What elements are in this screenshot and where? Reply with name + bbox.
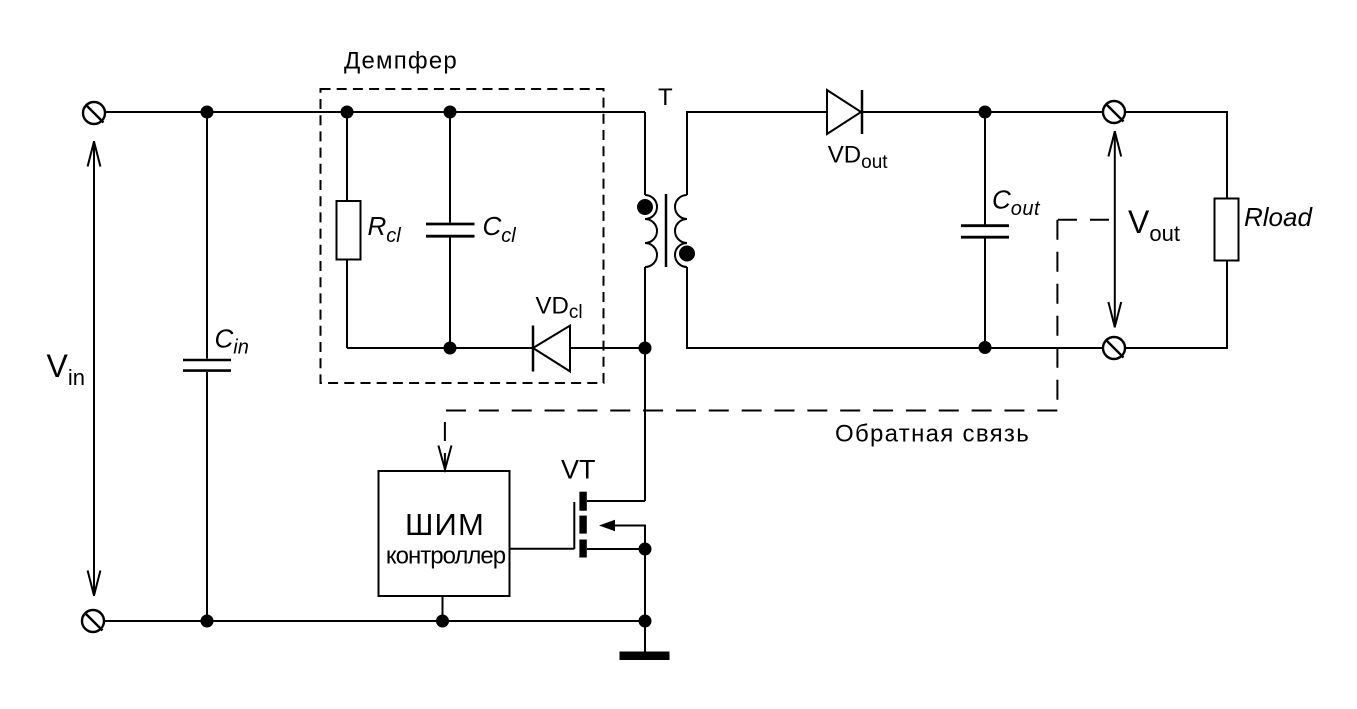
PWM controller box U1	[379, 471, 510, 596]
wire output top right	[1125, 112, 1227, 199]
capacitor Cout	[961, 226, 1009, 238]
transistor VT body arrow	[599, 520, 645, 549]
Vin arrow	[88, 141, 101, 596]
wire Ccl top	[449, 112, 451, 223]
transformer secondary polarity dot	[679, 246, 695, 262]
svg-text:ШИМ: ШИМ	[405, 507, 485, 542]
feedback arrow into PWM box	[438, 446, 451, 470]
wire Ccl bottom	[449, 238, 451, 349]
svg-text:Rload: Rload	[1244, 202, 1313, 232]
Vout arrow	[1108, 131, 1121, 328]
svg-text:Обратная связь: Обратная связь	[835, 421, 1030, 448]
wire secondary top	[687, 112, 1103, 195]
wire output bottom rail	[687, 267, 1103, 348]
transformer T core	[665, 194, 668, 267]
junction dot snubber bottom Ccl	[444, 342, 457, 355]
feedback dashed line horizontal top	[1057, 219, 1109, 221]
svg-text:контроллер: контроллер	[386, 543, 506, 570]
feedback dashed line horizontal long	[446, 410, 1057, 412]
junction dot bottom rail Cin	[201, 615, 214, 628]
resistor Rcl	[337, 201, 361, 260]
transformer primary polarity dot	[637, 199, 653, 215]
transistor VT drain wire	[587, 500, 645, 502]
wire PWM box to bottom rail	[442, 596, 444, 621]
junction dot top rail Ccl	[444, 106, 457, 119]
feedback dashed line vertical to PWM	[444, 422, 446, 441]
junction dot bottom rail PWM	[436, 615, 449, 628]
junction dot bottom rail ground	[639, 615, 652, 628]
wire PWM gate	[510, 548, 575, 550]
svg-text:T: T	[658, 84, 673, 111]
snubber dashed box	[321, 89, 604, 383]
terminal output bottom	[1103, 337, 1125, 359]
transistor VT gate line	[573, 502, 575, 549]
wire Rcl top	[346, 112, 348, 201]
transformer T primary winding	[645, 195, 657, 267]
wire Cout bottom	[984, 238, 986, 348]
junction dot snubber bottom drain	[639, 342, 652, 355]
junction dot top rail Cin	[201, 106, 214, 119]
junction dot output bottom Cout	[979, 341, 992, 354]
terminal input top	[83, 102, 105, 124]
junction dot top rail Rcl	[341, 106, 354, 119]
wire Rload bottom	[1125, 261, 1227, 349]
wire top rail	[105, 111, 645, 113]
junction dot source node	[639, 543, 652, 556]
wire Cin bottom	[206, 372, 208, 621]
feedback dashed line vertical right	[1056, 220, 1058, 411]
junction dot top rail Cout	[979, 106, 992, 119]
svg-text:Демпфер: Демпфер	[344, 48, 458, 75]
capacitor Cin	[183, 360, 231, 371]
transformer T secondary winding	[675, 195, 687, 267]
transistor VT channel bars	[579, 492, 586, 558]
wire Cout top	[984, 112, 986, 225]
wire source to ground rail	[644, 549, 646, 621]
wire primary top vertical	[644, 112, 646, 195]
wire ground stem	[644, 621, 646, 652]
svg-text:VT: VT	[561, 455, 596, 485]
wire bottom rail	[104, 620, 645, 622]
ground	[620, 652, 670, 661]
capacitor Ccl	[426, 224, 475, 236]
wire snubber bottom	[347, 347, 645, 349]
transistor VT source wire	[587, 548, 645, 550]
wire Cin top	[206, 112, 208, 359]
diode VDcl	[533, 326, 570, 372]
diode VDout	[827, 90, 862, 134]
wire drain vertical	[644, 267, 646, 501]
wire Rcl bottom	[346, 260, 348, 348]
terminal output top	[1103, 101, 1125, 123]
resistor Rload	[1215, 199, 1239, 261]
terminal input bottom	[82, 610, 104, 632]
